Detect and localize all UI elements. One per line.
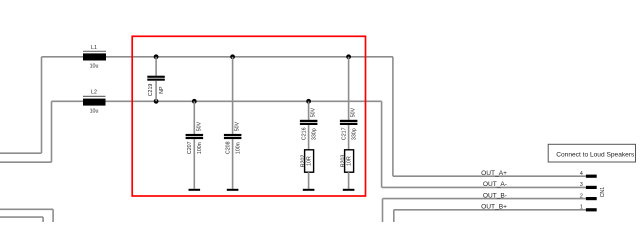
node: junction L2/C219 <box>154 99 159 104</box>
ground (C207) <box>189 189 201 191</box>
svg-text:1: 1 <box>580 205 583 211</box>
svg-text:330p: 330p <box>311 128 317 140</box>
ground (R202) <box>303 189 315 191</box>
wire: OUT_B- vertical from below <box>382 199 384 222</box>
wire: bottom-left channel B2 vertical <box>42 217 44 222</box>
svg-text:Connect to Loud Speakers: Connect to Loud Speakers <box>556 152 635 159</box>
capacitor C208 100n 50V <box>224 57 242 189</box>
connector CN1 pin 3 <box>586 186 597 189</box>
wire: OUT_A+ vertical drop <box>392 57 394 176</box>
svg-text:C217: C217 <box>341 127 347 140</box>
svg-text:330p: 330p <box>351 128 357 140</box>
ground (C208) <box>227 189 239 191</box>
ground (R203) <box>343 189 355 191</box>
svg-text:50V: 50V <box>351 107 357 117</box>
svg-text:C207: C207 <box>187 141 193 154</box>
inductor L1 <box>83 45 106 70</box>
connector CN1 pin 4 <box>586 175 597 178</box>
svg-text:3: 3 <box>580 182 583 188</box>
svg-text:4: 4 <box>580 171 583 177</box>
wire: bottom-left channel B horizontal <box>0 208 53 210</box>
wire: left input B vertical riser <box>51 101 53 162</box>
svg-text:50V: 50V <box>196 121 202 131</box>
svg-text:R203: R203 <box>340 155 346 168</box>
node: junction L2/C207 <box>192 99 197 104</box>
resistor R203 10R <box>340 150 353 189</box>
wire: OUT_B- horizontal to CN1 pin 2 <box>383 198 586 200</box>
wire: L2 output line <box>106 100 382 102</box>
svg-text:50V: 50V <box>235 121 241 131</box>
wire: L1 output line <box>106 56 393 58</box>
svg-text:10u: 10u <box>90 64 99 70</box>
wire: OUT_A- vertical drop <box>381 101 383 187</box>
svg-text:C219: C219 <box>148 84 154 97</box>
svg-text:10u: 10u <box>90 108 99 114</box>
svg-text:NP: NP <box>159 86 165 94</box>
wire: OUT_B+ vertical from below <box>393 210 395 222</box>
wire: OUT_B+ horizontal to CN1 pin 1 <box>394 209 586 211</box>
node: junction L1/C219 <box>154 54 159 59</box>
node: junction L1/C217 <box>346 54 351 59</box>
wire: left input A vertical riser <box>41 57 43 153</box>
svg-text:OUT_B-: OUT_B- <box>483 192 507 199</box>
connector CN1 pin 2 <box>586 197 597 200</box>
node: junction L1/C208 <box>230 54 235 59</box>
svg-text:R202: R202 <box>300 155 306 168</box>
capacitor C217 330p 50V <box>340 57 358 150</box>
annotation: Connect to Loud Speakers box <box>548 144 635 162</box>
capacitor C207 100n 50V <box>186 101 204 189</box>
wire: bottom-left channel B2 horizontal <box>0 216 43 218</box>
svg-text:OUT_A-: OUT_A- <box>483 181 507 188</box>
svg-text:10R: 10R <box>347 156 353 166</box>
capacitor C216 330p 50V <box>300 101 318 150</box>
wire: OUT_A- horizontal to CN1 pin 3 <box>382 186 586 188</box>
svg-text:L2: L2 <box>91 90 97 96</box>
wire: left input A horizontal to edge <box>0 152 42 154</box>
capacitor C219 NP <box>147 57 165 102</box>
node: junction L2/C216 <box>306 99 311 104</box>
svg-text:L1: L1 <box>91 45 97 51</box>
svg-text:50V: 50V <box>311 107 317 117</box>
wire: left input B horizontal to edge <box>0 161 52 163</box>
wire: input A to L1 <box>42 56 84 58</box>
svg-text:100n: 100n <box>197 142 203 154</box>
wire: input B to L2 <box>52 100 84 102</box>
svg-text:10R: 10R <box>307 156 313 166</box>
svg-text:OUT_B+: OUT_B+ <box>481 204 507 211</box>
wire: OUT_A+ horizontal to CN1 pin 4 <box>393 175 586 177</box>
svg-text:C216: C216 <box>301 127 307 140</box>
svg-text:CN1: CN1 <box>600 187 606 198</box>
resistor R202 10R <box>300 150 313 189</box>
svg-text:2: 2 <box>580 193 583 199</box>
red highlight box <box>132 36 365 196</box>
wire: bottom-left channel B vertical <box>52 209 54 222</box>
inductor L2 <box>83 90 106 115</box>
svg-text:C208: C208 <box>225 141 231 154</box>
svg-text:OUT_A+: OUT_A+ <box>481 170 507 177</box>
svg-text:100n: 100n <box>235 142 241 154</box>
connector CN1 pin 1 <box>586 208 597 211</box>
